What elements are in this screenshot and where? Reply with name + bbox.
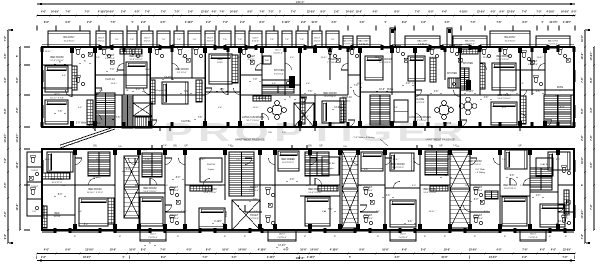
svg-text:FLAT B1: FLAT B1 — [181, 120, 191, 123]
svg-text:10'-6": 10'-6" — [110, 249, 117, 252]
svg-text:UP: UP — [184, 145, 188, 147]
svg-text:2'-6": 2'-6" — [581, 134, 584, 140]
svg-text:4'-6": 4'-6" — [402, 249, 407, 252]
svg-text:TOILET: TOILET — [474, 214, 483, 217]
svg-text:8'-0": 8'-0" — [320, 11, 325, 13]
svg-text:7'-6": 7'-6" — [65, 11, 70, 13]
svg-text:4'X2'-6": 4'X2'-6" — [144, 41, 151, 43]
svg-text:7'-6": 7'-6" — [200, 83, 204, 85]
svg-text:KITCHEN: KITCHEN — [463, 63, 473, 65]
svg-text:13'-0½": 13'-0½" — [469, 248, 477, 252]
svg-text:10' X 9'-6": 10' X 9'-6" — [177, 72, 187, 74]
svg-text:4'-6": 4'-6" — [322, 211, 326, 213]
svg-text:7'-0": 7'-0" — [502, 159, 506, 161]
svg-text:8'-0": 8'-0" — [161, 257, 166, 259]
svg-text:14'-0½": 14'-0½" — [238, 248, 246, 252]
svg-text:2'-6": 2'-6" — [421, 249, 426, 252]
svg-text:4'-6": 4'-6" — [372, 10, 377, 13]
svg-text:UP: UP — [518, 145, 522, 147]
svg-text:W.M.: W.M. — [265, 60, 270, 62]
svg-text:4'-0": 4'-0" — [395, 256, 400, 259]
svg-text:14'-0" X 10'-0": 14'-0" X 10'-0" — [203, 192, 216, 194]
svg-text:9'-6": 9'-6" — [160, 22, 165, 24]
svg-text:9'-6": 9'-6" — [141, 22, 146, 24]
svg-text:7'-0": 7'-0" — [415, 11, 420, 13]
svg-text:5'X7': 5'X7' — [564, 218, 569, 220]
svg-text:7'-6": 7'-6" — [184, 91, 189, 93]
svg-text:8'-0": 8'-0" — [571, 11, 576, 13]
svg-text:KITCHEN: KITCHEN — [274, 70, 284, 72]
svg-text:BED ROOM: BED ROOM — [143, 187, 156, 190]
svg-text:BALCONY: BALCONY — [343, 40, 354, 43]
svg-text:13'-0½": 13'-0½" — [85, 248, 93, 252]
svg-text:FLAT B4: FLAT B4 — [326, 162, 335, 165]
svg-text:14'-0½": 14'-0½" — [3, 133, 7, 143]
svg-text:BALCONY: BALCONY — [359, 40, 370, 43]
svg-text:7'-0": 7'-0" — [268, 11, 273, 13]
svg-text:4'-0": 4'-0" — [540, 249, 545, 252]
svg-text:10'-6": 10'-6" — [382, 249, 389, 252]
svg-text:7'-0": 7'-0" — [563, 257, 568, 259]
svg-text:8'-0": 8'-0" — [62, 185, 66, 187]
svg-text:16'-1" X 10'-0": 16'-1" X 10'-0" — [413, 120, 426, 122]
svg-text:7'-0"X4'-0": 7'-0"X4'-0" — [473, 190, 483, 192]
svg-text:8'-0": 8'-0" — [44, 22, 49, 24]
svg-text:7'-6": 7'-6" — [163, 145, 168, 147]
svg-text:2'-6": 2'-6" — [434, 91, 439, 93]
svg-text:8'-0": 8'-0" — [16, 76, 19, 82]
svg-text:7'-0"X4'-6": 7'-0"X4'-6" — [327, 62, 337, 64]
svg-text:9'-6": 9'-6" — [290, 159, 294, 161]
svg-text:7'-6": 7'-6" — [270, 39, 274, 41]
svg-text:BALCONY: BALCONY — [64, 36, 75, 39]
svg-text:7'-6": 7'-6" — [162, 39, 166, 41]
svg-text:10'-6": 10'-6" — [444, 249, 451, 252]
svg-text:10'-0"X12'-0": 10'-0"X12'-0" — [282, 162, 294, 164]
svg-text:2'-6": 2'-6" — [4, 181, 7, 187]
svg-text:4'-6": 4'-6" — [306, 185, 310, 187]
svg-text:TOILET: TOILET — [226, 210, 228, 218]
svg-text:BALCONY: BALCONY — [548, 40, 559, 43]
svg-text:TOILET: TOILET — [454, 44, 463, 47]
svg-text:7'-6": 7'-6" — [300, 39, 304, 41]
svg-text:BALCONY: BALCONY — [465, 40, 476, 43]
svg-text:7'-0": 7'-0" — [520, 185, 524, 187]
svg-text:7'-6": 7'-6" — [496, 22, 501, 24]
svg-text:7'-0": 7'-0" — [536, 11, 541, 13]
svg-text:Duplex: Duplex — [94, 177, 102, 179]
svg-text:9'-6": 9'-6" — [408, 221, 413, 223]
svg-text:BED: BED — [55, 94, 60, 97]
svg-text:7'-0"X4'-0": 7'-0"X4'-0" — [249, 190, 259, 192]
svg-text:4'-0": 4'-0" — [490, 10, 495, 13]
svg-text:4'-0": 4'-0" — [136, 89, 141, 91]
svg-text:7'-0": 7'-0" — [236, 159, 240, 161]
svg-text:10'-6": 10'-6" — [581, 156, 584, 164]
svg-text:2'-6": 2'-6" — [206, 22, 211, 24]
svg-text:7'-0"X4'-0": 7'-0"X4'-0" — [473, 218, 483, 220]
svg-text:4'-0": 4'-0" — [590, 106, 593, 112]
svg-text:APARTMENT PASSAGE: APARTMENT PASSAGE — [235, 138, 265, 142]
svg-text:7'-6": 7'-6" — [590, 134, 593, 140]
svg-text:2'-6": 2'-6" — [41, 257, 46, 259]
svg-text:8'-0": 8'-0" — [84, 224, 89, 226]
svg-text:TOILET: TOILET — [364, 186, 373, 189]
svg-text:BED ROOM: BED ROOM — [423, 188, 436, 191]
svg-text:9'-6": 9'-6" — [4, 107, 7, 113]
svg-text:8'-0"X7'-6": 8'-0"X7'-6" — [274, 73, 284, 75]
svg-text:7'-6": 7'-6" — [328, 209, 333, 211]
svg-text:7'-0": 7'-0" — [253, 79, 258, 81]
svg-text:8'-0": 8'-0" — [484, 211, 488, 213]
svg-text:DUCT: DUCT — [530, 234, 537, 236]
svg-text:4'-6"X4'-6": 4'-6"X4'-6" — [299, 116, 309, 118]
svg-text:TOILET: TOILET — [250, 186, 259, 189]
svg-text:7'-0": 7'-0" — [470, 22, 475, 24]
svg-text:13'-0½": 13'-0½" — [589, 51, 593, 61]
svg-text:7'-0": 7'-0" — [203, 257, 208, 259]
svg-text:14'-0" X 10'-0": 14'-0" X 10'-0" — [423, 192, 436, 194]
svg-text:4'-6": 4'-6" — [359, 21, 364, 24]
svg-text:FLAT A4: FLAT A4 — [105, 78, 115, 81]
svg-text:10'-6": 10'-6" — [300, 249, 307, 252]
svg-text:4'X2'-6": 4'X2'-6" — [207, 41, 214, 43]
svg-text:7'-6": 7'-6" — [115, 39, 119, 41]
svg-text:BED: BED — [218, 58, 223, 61]
svg-text:8'-0": 8'-0" — [259, 22, 264, 24]
svg-text:8'-0": 8'-0" — [164, 185, 168, 187]
svg-text:8'-0": 8'-0" — [428, 11, 433, 13]
svg-text:7'-6": 7'-6" — [58, 111, 63, 113]
svg-text:4'-0": 4'-0" — [283, 249, 288, 252]
svg-text:KITCHEN: KITCHEN — [447, 73, 457, 75]
svg-text:7'-0": 7'-0" — [84, 11, 89, 13]
svg-text:7'-6": 7'-6" — [223, 39, 227, 41]
svg-text:2'-0" Wide: 2'-0" Wide — [475, 169, 485, 171]
svg-text:TOILET: TOILET — [250, 214, 259, 217]
svg-text:3'-0" Wide + 6'10 Riding: 3'-0" Wide + 6'10 Riding — [76, 123, 101, 125]
svg-text:7'-6": 7'-6" — [160, 249, 165, 252]
svg-text:4'-6": 4'-6" — [62, 75, 66, 77]
svg-text:7'-6": 7'-6" — [238, 39, 242, 41]
svg-text:BED ROOM: BED ROOM — [203, 188, 216, 191]
svg-text:TOILET: TOILET — [170, 186, 179, 189]
svg-text:BED ROOM: BED ROOM — [391, 163, 404, 166]
svg-text:4'-6": 4'-6" — [442, 10, 447, 13]
svg-text:8'-0": 8'-0" — [272, 185, 276, 187]
svg-text:DUCT: DUCT — [400, 234, 407, 236]
svg-text:TOILET: TOILET — [364, 214, 373, 217]
svg-text:7'-6": 7'-6" — [285, 39, 289, 41]
svg-text:DUCT: DUCT — [253, 38, 260, 40]
svg-text:9'-6": 9'-6" — [520, 83, 524, 85]
svg-text:10'-0"X7'-6": 10'-0"X7'-6" — [52, 182, 63, 184]
svg-text:130'-0": 130'-0" — [296, 0, 305, 4]
svg-text:7'-6": 7'-6" — [581, 76, 584, 82]
svg-text:10'-6": 10'-6" — [581, 52, 584, 60]
svg-text:Old Duplex UP: Old Duplex UP — [153, 90, 167, 92]
svg-text:DUCT: DUCT — [98, 38, 105, 40]
svg-text:4'-6": 4'-6" — [448, 159, 452, 161]
svg-text:9'-6": 9'-6" — [499, 11, 504, 13]
svg-text:4'-6": 4'-6" — [78, 211, 82, 213]
svg-text:10'-0"X4'-0": 10'-0"X4'-0" — [64, 40, 75, 42]
svg-text:FLAT A3: FLAT A3 — [342, 96, 352, 99]
svg-text:DUCT: DUCT — [279, 234, 286, 236]
svg-text:7'-6"X5'-0": 7'-6"X5'-0" — [148, 237, 158, 239]
svg-text:BED: BED — [55, 212, 60, 215]
svg-text:4'-6": 4'-6" — [536, 91, 541, 93]
svg-text:7'-6": 7'-6" — [116, 117, 121, 119]
svg-text:DN: DN — [93, 145, 97, 147]
svg-text:DN: DN — [143, 150, 147, 152]
svg-text:4'-6": 4'-6" — [484, 97, 489, 99]
svg-text:UP: UP — [439, 145, 443, 147]
svg-text:8'-0": 8'-0" — [474, 199, 479, 201]
svg-text:DN: DN — [173, 145, 177, 147]
svg-text:10'-6": 10'-6" — [581, 34, 584, 42]
svg-text:TOILET: TOILET — [247, 55, 256, 58]
svg-text:2'-6": 2'-6" — [16, 106, 19, 112]
svg-text:7'-6": 7'-6" — [130, 39, 134, 41]
svg-text:DUCT: DUCT — [463, 50, 470, 52]
svg-text:4'-6": 4'-6" — [386, 195, 391, 197]
svg-text:TOILET: TOILET — [562, 214, 571, 217]
svg-text:8'-0": 8'-0" — [590, 76, 593, 82]
svg-text:7'-6": 7'-6" — [376, 211, 380, 213]
svg-text:4'-0": 4'-0" — [536, 195, 541, 197]
svg-text:13'-0½": 13'-0½" — [580, 209, 584, 219]
svg-text:4'-6": 4'-6" — [220, 89, 225, 91]
svg-text:FLAT B4: FLAT B4 — [207, 163, 216, 166]
svg-text:TOILET: TOILET — [31, 170, 39, 172]
svg-text:4'-0": 4'-0" — [496, 249, 501, 252]
svg-text:4'-6": 4'-6" — [394, 107, 398, 109]
svg-text:10'-6": 10'-6" — [16, 161, 19, 169]
svg-text:10'X9': 10'X9' — [217, 62, 223, 64]
svg-text:TOILET: TOILET — [474, 186, 483, 189]
svg-text:5'-0": 5'-0" — [32, 211, 36, 213]
svg-text:16'-0"X10'-0": 16'-0"X10'-0" — [324, 96, 336, 98]
svg-text:4'-0": 4'-0" — [290, 179, 295, 181]
svg-text:7'-0": 7'-0" — [354, 85, 359, 87]
svg-text:7'-0": 7'-0" — [590, 203, 593, 209]
svg-text:4'-6": 4'-6" — [522, 256, 527, 259]
svg-text:8'-0": 8'-0" — [522, 22, 527, 24]
svg-text:4'-6": 4'-6" — [421, 21, 426, 24]
svg-text:DN: DN — [428, 145, 432, 147]
svg-text:4'-6": 4'-6" — [211, 10, 216, 13]
svg-text:8'-0": 8'-0" — [176, 177, 181, 179]
svg-text:7'-6": 7'-6" — [145, 11, 150, 13]
svg-text:BED ROOM: BED ROOM — [88, 188, 101, 191]
svg-text:10'-6": 10'-6" — [441, 257, 447, 259]
svg-text:4'-6": 4'-6" — [4, 52, 7, 58]
svg-text:2'-6": 2'-6" — [412, 83, 416, 85]
svg-text:LIFT: LIFT — [302, 113, 307, 115]
svg-text:TOILET: TOILET — [328, 58, 337, 61]
svg-text:7'-6": 7'-6" — [581, 233, 584, 239]
svg-text:4'-0": 4'-0" — [134, 10, 139, 13]
svg-text:7'-6": 7'-6" — [522, 249, 527, 252]
svg-text:7'-6": 7'-6" — [110, 22, 115, 24]
svg-text:BED ROOM: BED ROOM — [496, 55, 509, 58]
svg-text:7'-6": 7'-6" — [308, 91, 313, 93]
svg-text:12'-6" X 10'-0": 12'-6" X 10'-0" — [50, 60, 63, 62]
svg-text:TOILET: TOILET — [31, 186, 39, 188]
svg-text:9'-6": 9'-6" — [4, 233, 7, 239]
svg-text:TOILET: TOILET — [529, 60, 538, 63]
svg-text:7'-0"X4'-0": 7'-0"X4'-0" — [249, 218, 259, 220]
svg-text:12'-6" X 10'-0": 12'-6" X 10'-0" — [496, 59, 509, 61]
svg-text:9'-6": 9'-6" — [65, 249, 70, 252]
svg-text:BED ROOM: BED ROOM — [50, 56, 63, 59]
svg-text:8'-0": 8'-0" — [394, 11, 399, 13]
svg-text:7'-6": 7'-6" — [253, 199, 258, 201]
svg-text:BED ROOM: BED ROOM — [497, 94, 510, 97]
svg-text:DN: DN — [118, 146, 122, 148]
svg-text:4'-0": 4'-0" — [41, 10, 46, 13]
svg-text:8'-0": 8'-0" — [126, 169, 131, 171]
svg-text:2'-6": 2'-6" — [87, 22, 92, 24]
svg-text:DN: DN — [343, 146, 347, 148]
svg-text:BED ROOM: BED ROOM — [308, 188, 321, 191]
svg-text:4'-6"X7'-6": 4'-6"X7'-6" — [105, 58, 115, 60]
svg-text:BED ROOM: BED ROOM — [323, 92, 336, 95]
svg-text:10'-6": 10'-6" — [501, 107, 506, 109]
svg-text:7'-6"X5'-0": 7'-6"X5'-0" — [277, 237, 287, 239]
svg-text:14'-0½": 14'-0½" — [15, 133, 19, 143]
svg-text:10'X10': 10'X10' — [54, 216, 61, 218]
svg-text:7'-6": 7'-6" — [331, 39, 335, 41]
svg-text:2'-6": 2'-6" — [182, 57, 186, 59]
svg-text:Duplex: Duplex — [208, 169, 215, 171]
svg-text:8'-0": 8'-0" — [581, 107, 584, 113]
svg-text:16'-7" X 10'-0": 16'-7" X 10'-0" — [246, 120, 259, 122]
svg-text:4'-10½": 4'-10½" — [330, 248, 338, 252]
svg-text:BED ROOM: BED ROOM — [129, 55, 142, 58]
svg-text:4'-0": 4'-0" — [232, 256, 237, 259]
svg-text:2'-6": 2'-6" — [4, 210, 7, 216]
svg-text:7'X4'-6": 7'X4'-6" — [454, 48, 461, 50]
svg-text:2'-0" Wide + 6' Riding: 2'-0" Wide + 6' Riding — [354, 137, 376, 139]
svg-text:BED ROOM: BED ROOM — [468, 160, 481, 163]
svg-text:DUCT: DUCT — [207, 38, 214, 40]
svg-text:BED ROOM: BED ROOM — [503, 184, 516, 187]
svg-text:2'-6": 2'-6" — [121, 11, 126, 13]
svg-text:7'-6": 7'-6" — [388, 92, 392, 94]
svg-text:10'-6": 10'-6" — [222, 249, 229, 252]
svg-text:PASS: PASS — [557, 86, 564, 89]
svg-text:9'-6": 9'-6" — [301, 22, 306, 24]
svg-text:7'-6": 7'-6" — [522, 11, 527, 13]
svg-text:7'-6"X5'-0": 7'-6"X5'-0" — [528, 237, 538, 239]
svg-text:7'-0"X4'-0": 7'-0"X4'-0" — [169, 218, 179, 220]
svg-text:DUCT: DUCT — [275, 50, 282, 52]
svg-text:7'-0": 7'-0" — [291, 11, 296, 13]
svg-text:4'-6": 4'-6" — [254, 211, 258, 213]
svg-text:4'-0": 4'-0" — [186, 249, 191, 252]
svg-text:7'-0"X4'-0": 7'-0"X4'-0" — [169, 190, 179, 192]
svg-text:Duplex: Duplex — [327, 168, 334, 170]
svg-text:CLOSE: CLOSE — [416, 98, 425, 101]
svg-text:9'-0"X7'-0": 9'-0"X7'-0" — [415, 102, 425, 104]
svg-text:DUCT: DUCT — [144, 38, 151, 40]
svg-text:7'-0": 7'-0" — [110, 69, 115, 71]
svg-text:4'X2'-6": 4'X2'-6" — [252, 41, 259, 43]
svg-text:7'-0"X4'-0": 7'-0"X4'-0" — [363, 190, 373, 192]
svg-text:4'-0": 4'-0" — [4, 76, 7, 82]
svg-text:14'-0" X 10'-0": 14'-0" X 10'-0" — [308, 192, 321, 194]
svg-text:4'-0": 4'-0" — [44, 249, 49, 252]
svg-text:Duplex: Duplex — [541, 169, 548, 171]
svg-text:9'-6": 9'-6" — [96, 159, 100, 161]
svg-text:2'-0": 2'-0" — [282, 132, 286, 134]
svg-text:10'-0"X12'-6": 10'-0"X12'-6" — [379, 62, 391, 64]
svg-text:14'-0½": 14'-0½" — [310, 248, 318, 252]
svg-text:4'-0": 4'-0" — [444, 21, 449, 24]
svg-text:4'-6"X7'-6": 4'-6"X7'-6" — [528, 64, 538, 66]
svg-text:7'-0"X4'-0": 7'-0"X4'-0" — [363, 218, 373, 220]
svg-text:10'-0"X12'-0": 10'-0"X12'-0" — [392, 167, 404, 169]
svg-text:8'-0": 8'-0" — [141, 249, 146, 252]
svg-text:10'-6": 10'-6" — [16, 203, 19, 211]
svg-text:9'-6": 9'-6" — [247, 11, 252, 13]
svg-text:DUCT: DUCT — [150, 234, 157, 236]
svg-text:4'-6"X7': 4'-6"X7' — [247, 59, 255, 61]
svg-text:4'-0": 4'-0" — [290, 57, 294, 59]
svg-text:DN: DN — [308, 145, 312, 147]
svg-text:2'-6": 2'-6" — [240, 22, 245, 24]
svg-text:APARTMENT PASSAGE: APARTMENT PASSAGE — [425, 138, 455, 142]
svg-text:10'-6": 10'-6" — [356, 11, 362, 13]
svg-text:10'-6": 10'-6" — [379, 89, 385, 91]
svg-text:4'-0": 4'-0" — [551, 249, 556, 252]
svg-text:BALCONY: BALCONY — [505, 36, 516, 39]
svg-text:FLAT B4: FLAT B4 — [540, 163, 549, 166]
svg-text:8'-0": 8'-0" — [402, 22, 407, 24]
svg-text:2'-6": 2'-6" — [334, 11, 339, 13]
svg-text:4'-6": 4'-6" — [306, 83, 310, 85]
svg-text:LIVING CUM DINING: LIVING CUM DINING — [242, 117, 264, 119]
svg-text:130'-0": 130'-0" — [296, 256, 306, 260]
svg-text:TOILET: TOILET — [170, 214, 179, 217]
svg-text:4'-0": 4'-0" — [78, 107, 82, 109]
svg-text:9'-6": 9'-6" — [364, 169, 369, 171]
svg-text:BED ROOM: BED ROOM — [50, 178, 63, 181]
svg-text:4'-0": 4'-0" — [406, 83, 411, 85]
svg-text:9'-6": 9'-6" — [218, 185, 222, 187]
svg-text:Duplex: Duplex — [344, 101, 352, 103]
svg-text:DUCT: DUCT — [314, 38, 321, 40]
svg-text:9'-6": 9'-6" — [359, 249, 364, 252]
svg-text:FLAT B: FLAT B — [443, 122, 452, 125]
svg-text:8'-0": 8'-0" — [560, 107, 565, 109]
svg-text:10'-0"X4'-0": 10'-0"X4'-0" — [505, 40, 516, 42]
svg-text:10'-6": 10'-6" — [311, 22, 317, 24]
svg-text:LIVING CUM DINING: LIVING CUM DINING — [409, 117, 431, 119]
svg-text:10'-6": 10'-6" — [129, 249, 136, 252]
svg-text:2'-6": 2'-6" — [331, 22, 336, 24]
svg-text:TOILET: TOILET — [106, 54, 115, 57]
svg-text:13'-0½": 13'-0½" — [563, 248, 571, 252]
svg-text:4'X2'-6": 4'X2'-6" — [98, 41, 105, 43]
svg-text:UP: UP — [319, 145, 323, 147]
svg-text:7'-6"X5'-0": 7'-6"X5'-0" — [398, 237, 408, 239]
svg-text:13'-0" X 10'-0": 13'-0" X 10'-0" — [497, 98, 510, 100]
svg-text:7'-6": 7'-6" — [259, 11, 264, 13]
svg-text:4'-6": 4'-6" — [590, 161, 593, 167]
